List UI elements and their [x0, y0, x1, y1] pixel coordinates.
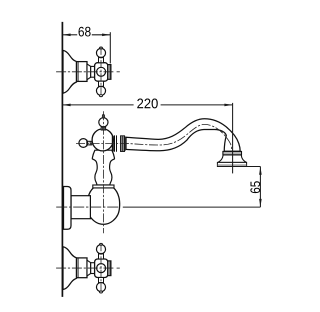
- coupling rings: [112, 136, 114, 152]
- dimension 220 line: [62, 104, 133, 106]
- spout mount centerline: [56, 206, 119, 208]
- label 68: [79, 27, 91, 37]
- outlet ring band: [223, 151, 242, 155]
- label 220: [137, 99, 158, 109]
- vase body: [92, 150, 114, 185]
- side knob stem: [87, 141, 92, 145]
- arrow right 220: [224, 104, 232, 107]
- 68 extension line: [109, 32, 111, 63]
- spout arm centerline: [76, 124, 232, 151]
- spout column centerline: [102, 111, 104, 233]
- outlet flare: [218, 155, 247, 163]
- wall line: [61, 22, 63, 297]
- centerline to 65 dim: [123, 206, 261, 208]
- dimension 65 line: [259, 167, 261, 208]
- bottom valve: [56, 243, 120, 293]
- arrow left 220: [63, 104, 71, 107]
- arrow right 68: [102, 34, 110, 37]
- top valve: [56, 47, 120, 97]
- 220 extension line: [232, 103, 234, 173]
- spout head: [92, 129, 113, 151]
- arrow left 68: [63, 34, 71, 37]
- spout nipple: [71, 196, 90, 219]
- label 65: [250, 181, 260, 193]
- finial ball: [99, 118, 108, 127]
- arrow down 65: [259, 199, 262, 207]
- vase collar disc: [93, 185, 114, 188]
- spout body bulb: [87, 188, 119, 224]
- finial neck: [101, 127, 105, 130]
- dimension 68 line: [62, 34, 77, 36]
- arrow up 65: [259, 167, 262, 175]
- dimension 65 connector top: [217, 166, 260, 168]
- spout wall flange: [64, 187, 72, 230]
- spout tube: [126, 119, 240, 152]
- side knob ball: [79, 139, 88, 148]
- outlet base: [217, 162, 246, 166]
